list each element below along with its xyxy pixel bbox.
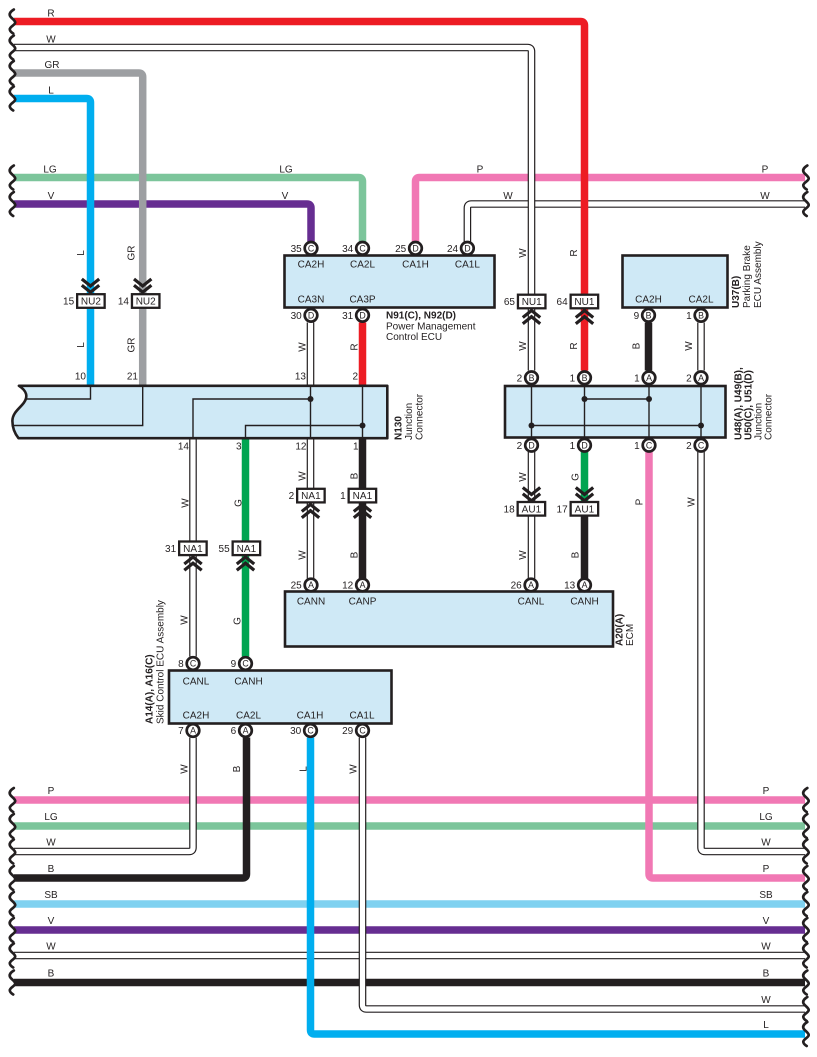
break symbol bottom right y=930 [803, 918, 808, 942]
label P bus bottom right [763, 864, 770, 875]
svg-text:LG: LG [44, 812, 58, 823]
wire R bus top to U48 pin 1(B) [14, 22, 585, 371]
label W wire AU1-ECM [518, 550, 529, 560]
pin 35(C) CA2H [291, 242, 318, 255]
connector AU1 pin 17 [557, 502, 599, 516]
pin 2(D) U48 [517, 439, 538, 452]
break symbol left y=204 [10, 192, 15, 216]
connector NU1 pin 65 [504, 295, 546, 309]
svg-text:W: W [518, 341, 529, 351]
svg-text:B: B [632, 342, 643, 349]
connector arrow to NA1 1 [354, 505, 371, 518]
svg-text:30: 30 [291, 311, 303, 322]
svg-text:25: 25 [395, 244, 407, 255]
break symbol bottom right y=955.5 [803, 944, 808, 968]
svg-text:NU2: NU2 [81, 297, 101, 308]
svg-text:W: W [503, 191, 513, 202]
break symbol bottom right y=800 [803, 788, 808, 812]
svg-text:B: B [582, 373, 588, 383]
pin 2(C) U48 [686, 439, 707, 452]
svg-text:1: 1 [686, 311, 692, 322]
label W bus bottom left [46, 838, 56, 849]
label V bus left [48, 191, 55, 202]
svg-text:2: 2 [352, 372, 358, 383]
wire G from N130 pin 3 to skid control CANH pin 9 [242, 439, 250, 657]
svg-text:CA2H: CA2H [635, 295, 662, 306]
break symbol bottom right y=851.5 [803, 840, 808, 864]
pin 26(A) ECM CANL [511, 579, 538, 592]
label V bus mid [282, 191, 289, 202]
svg-text:ECM: ECM [625, 624, 636, 646]
pin 25(D) CA1H [395, 242, 422, 255]
svg-text:B: B [350, 551, 361, 558]
svg-text:12: 12 [342, 581, 354, 592]
svg-text:P: P [763, 786, 770, 797]
connector AU1 pin 18 [504, 502, 546, 516]
svg-text:B: B [529, 373, 535, 383]
label W wire PM-N130 [298, 342, 309, 352]
break symbol left y=73 [10, 61, 15, 85]
svg-text:2: 2 [289, 491, 295, 502]
svg-text:W: W [684, 341, 695, 351]
svg-text:AU1: AU1 [522, 504, 542, 515]
svg-text:1: 1 [570, 373, 576, 384]
svg-text:CA3P: CA3P [349, 295, 375, 306]
connector NU1 pin 64 [557, 295, 599, 309]
wire W from U37 pin 1 to U48 pin 2(A) [697, 323, 705, 371]
label GR wire upper [127, 246, 138, 261]
label R wire below NU1 [569, 342, 580, 349]
connector NA1 pin 55 [219, 542, 261, 556]
label GR wire lower [127, 338, 138, 353]
svg-text:B: B [646, 311, 652, 321]
svg-text:A: A [190, 726, 196, 736]
label P bus mid [477, 164, 484, 175]
wire W from N130 pin 14 to skid control CANL pin 8 [189, 439, 197, 657]
label W bus bottom right [761, 942, 771, 953]
svg-text:25: 25 [291, 581, 303, 592]
svg-text:W: W [518, 248, 529, 258]
svg-text:CA1L: CA1L [455, 260, 480, 271]
svg-text:30: 30 [290, 726, 302, 737]
svg-text:2: 2 [686, 373, 692, 384]
svg-text:G: G [234, 499, 245, 507]
label L wire upper [76, 250, 87, 256]
pin 30(C) skid CA1H [290, 724, 317, 737]
wire L bus to N130 pin 10 [14, 99, 91, 386]
break symbol bottom left y=930 [10, 918, 15, 942]
svg-text:18: 18 [504, 504, 516, 515]
wire B bus bottom [14, 979, 805, 987]
node N130 pin 10 [75, 372, 87, 383]
connector NU2 pin 15 [63, 294, 105, 308]
svg-text:NU2: NU2 [136, 297, 156, 308]
svg-text:1: 1 [570, 441, 576, 452]
svg-text:CANH: CANH [234, 677, 262, 688]
svg-text:B: B [48, 864, 55, 875]
svg-text:CA2L: CA2L [688, 295, 713, 306]
label N130 Junction Connector [394, 393, 426, 440]
svg-text:A20(A): A20(A) [615, 614, 626, 646]
svg-text:CANP: CANP [349, 597, 377, 608]
label N91(C), N92(D) Power Management Control ECU [386, 311, 476, 344]
pin 1(B) U48 [570, 372, 591, 385]
label B bus bottom right [763, 969, 770, 980]
label W wire NA1-ECM [298, 550, 309, 560]
svg-text:CA1H: CA1H [402, 260, 429, 271]
label W wire U48 down [687, 497, 698, 507]
svg-text:B: B [48, 969, 55, 980]
svg-text:B: B [698, 311, 704, 321]
label L wire below skid [299, 766, 310, 772]
label W wire U48-AU1 [518, 472, 529, 482]
label B wire AU1-ECM [571, 551, 582, 558]
label P bus bottom left [48, 786, 55, 797]
svg-text:C: C [359, 726, 366, 736]
svg-text:9: 9 [231, 659, 237, 670]
svg-text:1: 1 [634, 441, 640, 452]
svg-text:A: A [698, 373, 704, 383]
wire B from AU1 to ECM CANH pin 13 [581, 508, 589, 579]
label LG bus left [43, 164, 57, 175]
break symbol bottom left y=904 [10, 892, 15, 916]
svg-text:Skid Control ECU Assembly: Skid Control ECU Assembly [156, 600, 167, 724]
label P bus right [762, 164, 769, 175]
svg-text:A: A [308, 580, 314, 590]
label P bus bottom right [763, 786, 770, 797]
pin 13(A) ECM CANH [564, 579, 591, 592]
pin 2(A) U48 [686, 372, 707, 385]
pin 31(D) CA3P [342, 309, 369, 322]
break symbol bottom right y=878 [803, 866, 808, 890]
connector arrow to NA1 55 [237, 557, 254, 570]
svg-text:LG: LG [43, 164, 57, 175]
wire G from U48 pin 1(D) to AU1 [581, 452, 589, 508]
pin 8(C) skid CANL [178, 657, 199, 670]
label W bus mid right [503, 191, 513, 202]
wire P from U48 pin 1(C) to right P bus [649, 452, 805, 878]
pin 24(D) CA1L [447, 242, 474, 255]
svg-text:GR: GR [45, 60, 60, 71]
label B wire NA1-ECM [350, 551, 361, 558]
svg-text:W: W [761, 995, 771, 1006]
break symbol bottom left y=982.5 [10, 971, 15, 995]
svg-text:CA3N: CA3N [298, 295, 325, 306]
svg-text:12: 12 [295, 442, 307, 453]
node N130 pin 14 [178, 442, 190, 453]
svg-text:B: B [232, 765, 243, 772]
pin 1(D) U48 [570, 439, 591, 452]
wire P bus bottom [14, 796, 805, 804]
connector arrow to AU1 18 [523, 488, 540, 501]
connector arrow to NU2 14 [134, 279, 151, 292]
break symbol bottom left y=826 [10, 814, 15, 838]
svg-text:V: V [48, 916, 55, 927]
svg-text:2: 2 [517, 441, 523, 452]
svg-text:65: 65 [504, 297, 516, 308]
svg-text:Connector: Connector [763, 393, 774, 440]
label W wire below skid [180, 764, 191, 774]
svg-text:CANN: CANN [297, 597, 325, 608]
svg-text:U37(B): U37(B) [731, 276, 742, 308]
wire W from U48 pin 2(C) to right W bus [701, 452, 805, 852]
pin 6(A) skid CA2L [231, 724, 252, 737]
wire V bus bottom [14, 926, 805, 934]
svg-text:W: W [518, 472, 529, 482]
label L bus bottom right [763, 1020, 769, 1031]
connector NA1 pin 2 [289, 489, 325, 503]
svg-text:A: A [243, 726, 249, 736]
svg-text:R: R [569, 249, 580, 256]
svg-text:35: 35 [291, 244, 303, 255]
pin 9(C) skid CANH [231, 657, 252, 670]
label G wire NA1-skid [233, 617, 244, 625]
svg-text:8: 8 [178, 659, 184, 670]
svg-text:W: W [181, 498, 192, 508]
break symbol bottom left y=955.5 [10, 944, 15, 968]
svg-text:SB: SB [759, 890, 773, 901]
label R bus [47, 8, 54, 19]
svg-text:Parking Brake: Parking Brake [742, 245, 753, 308]
connector NA1 pin 31 [165, 542, 207, 556]
label W wire U37-U48 [684, 341, 695, 351]
label R wire above NU1 [569, 249, 580, 256]
wire W from skid CA2H pin 7 to left W bus [14, 738, 193, 852]
svg-text:W: W [298, 471, 309, 481]
label W bus right [760, 191, 770, 202]
break symbol bottom right y=1009 [803, 997, 808, 1021]
svg-text:7: 7 [178, 726, 184, 737]
label W wire below NU1 [518, 341, 529, 351]
wire B from U37 pin 9 to U48 pin 1(A) [645, 323, 653, 371]
label W bus bottom right [761, 838, 771, 849]
wire W from U48 pin 2(D) to ECM CANL pin 26 [528, 452, 536, 579]
svg-text:Junction: Junction [404, 403, 415, 440]
label B bus bottom left [48, 969, 55, 980]
svg-text:34: 34 [342, 244, 354, 255]
label B wire N130-NA1 [350, 472, 361, 479]
svg-text:CANH: CANH [570, 597, 598, 608]
svg-text:SB: SB [44, 890, 58, 901]
label LG bus bottom left [44, 812, 58, 823]
svg-text:NA1: NA1 [301, 491, 321, 502]
svg-text:9: 9 [634, 311, 640, 322]
connector arrow to NU1 64 [576, 311, 593, 324]
svg-text:14: 14 [118, 297, 130, 308]
svg-text:B: B [571, 551, 582, 558]
svg-text:W: W [46, 838, 56, 849]
svg-text:C: C [698, 440, 705, 450]
ECU A20 ECM [285, 592, 613, 647]
connector arrow to NU2 15 [82, 279, 99, 292]
label W wire NA1-skid [180, 615, 191, 625]
label G wire N130 pin3 upper [234, 499, 245, 507]
ECU A14/A16 Skid Control ECU Assembly [169, 671, 392, 724]
break symbol bottom right y=904 [803, 892, 808, 916]
wire W bus top to U48 pin 2(B) [14, 48, 532, 371]
svg-text:13: 13 [295, 372, 307, 383]
wire B from skid CA2L pin 6 to left B bus [14, 738, 247, 879]
svg-text:21: 21 [127, 372, 139, 383]
label LG bus mid [279, 164, 293, 175]
pin 25(A) ECM CANN [291, 579, 318, 592]
svg-text:R: R [350, 343, 361, 350]
svg-text:AU1: AU1 [575, 504, 595, 515]
svg-text:ECU Assembly: ECU Assembly [753, 241, 764, 308]
label A14(A), A16(C) Skid Control ECU Assembly [145, 600, 167, 724]
svg-text:C: C [190, 659, 197, 669]
svg-text:Connector: Connector [415, 393, 426, 440]
label R wire PM-N130 [350, 343, 361, 350]
ECU N91/N92 Power Management Control ECU [285, 256, 495, 308]
svg-text:CANL: CANL [183, 677, 210, 688]
pin 12(A) ECM CANP [342, 579, 369, 592]
break symbol bottom right y=826 [803, 814, 808, 838]
svg-text:A: A [360, 580, 366, 590]
svg-text:14: 14 [178, 442, 190, 453]
svg-text:C: C [646, 440, 653, 450]
junction connector N130 [12, 386, 387, 438]
svg-text:V: V [48, 191, 55, 202]
svg-text:W: W [518, 550, 529, 560]
svg-text:GR: GR [127, 246, 138, 261]
svg-text:A14(A), A16(C): A14(A), A16(C) [145, 654, 156, 724]
pin 7(A) skid CA2H [178, 724, 199, 737]
node N130 pin 3 [236, 442, 242, 453]
label V bus bottom left [48, 916, 55, 927]
node N130 pin 1 [353, 442, 359, 453]
break symbol bottom right y=982.5 [803, 971, 808, 995]
label W bus top [46, 34, 56, 45]
label SB bus bottom left [44, 890, 58, 901]
label W bus bottom right [761, 995, 771, 1006]
break symbol right y=204 [803, 192, 808, 216]
connector arrow to AU1 17 [576, 488, 593, 501]
break symbol bottom left y=878 [10, 866, 15, 890]
svg-text:L: L [763, 1020, 769, 1031]
pin 29(C) skid CA1L [342, 724, 369, 737]
svg-text:N91(C), N92(D): N91(C), N92(D) [386, 311, 456, 322]
pin 1(A) U48 [634, 372, 655, 385]
svg-text:C: C [242, 659, 249, 669]
svg-text:13: 13 [564, 581, 576, 592]
label W wire above NU1 [518, 248, 529, 258]
connector arrow to NU1 65 [523, 311, 540, 324]
label LG bus bottom right [759, 812, 773, 823]
svg-text:V: V [763, 916, 770, 927]
label GR bus [45, 60, 60, 71]
label L bus [48, 85, 54, 96]
svg-text:W: W [298, 550, 309, 560]
svg-text:D: D [464, 244, 470, 254]
label SB bus bottom right [759, 890, 773, 901]
svg-text:24: 24 [447, 244, 459, 255]
node N130 pin 13 [295, 372, 307, 383]
label W wire below skid CA1L [349, 764, 360, 774]
break symbol left y=98.5 [10, 87, 15, 111]
break symbol left y=177.5 [10, 166, 15, 190]
break symbol bottom left y=800 [10, 788, 15, 812]
svg-text:15: 15 [63, 297, 75, 308]
svg-text:Control ECU: Control ECU [386, 332, 442, 343]
svg-text:V: V [282, 191, 289, 202]
svg-text:W: W [46, 34, 56, 45]
svg-text:NA1: NA1 [183, 544, 203, 555]
svg-text:R: R [47, 8, 54, 19]
label B wire U37-U48 [632, 342, 643, 349]
svg-text:Power Management: Power Management [386, 322, 476, 333]
wire W bus right to CA1L pin 24 [467, 204, 805, 242]
svg-text:LG: LG [279, 164, 293, 175]
svg-text:NU1: NU1 [574, 297, 594, 308]
wire L from skid CA1H pin 30 to bottom L bus [311, 738, 806, 1035]
svg-text:P: P [762, 164, 769, 175]
svg-text:B: B [763, 969, 770, 980]
svg-text:NU1: NU1 [522, 297, 542, 308]
svg-text:3: 3 [236, 442, 242, 453]
svg-text:N130: N130 [394, 416, 405, 440]
svg-text:17: 17 [557, 504, 569, 515]
svg-text:G: G [233, 617, 244, 625]
connector arrow to NA1 31 [184, 557, 201, 570]
wire W from skid CA1L pin 29 to bottom W bus [363, 738, 806, 1010]
label A20(A) ECM [615, 614, 637, 646]
ECU U37 Parking Brake ECU Assembly [623, 256, 728, 308]
svg-text:C: C [359, 244, 366, 254]
svg-text:29: 29 [342, 726, 354, 737]
svg-text:CA1L: CA1L [349, 711, 374, 722]
svg-text:D: D [308, 311, 314, 321]
label U37(B) Parking Brake ECU Assembly [731, 241, 764, 308]
svg-text:P: P [477, 164, 484, 175]
label W wire N130 pin14 upper [181, 498, 192, 508]
svg-text:31: 31 [165, 544, 177, 555]
label B bus bottom left [48, 864, 55, 875]
svg-text:CA2L: CA2L [236, 711, 261, 722]
pin 1(B) U37 CA2L [686, 309, 707, 322]
svg-text:55: 55 [219, 544, 231, 555]
svg-text:W: W [180, 764, 191, 774]
svg-text:W: W [349, 764, 360, 774]
svg-text:C: C [308, 244, 315, 254]
wire W bus bottom [14, 952, 805, 960]
svg-text:P: P [48, 786, 55, 797]
wire LG bus bottom [14, 822, 805, 830]
svg-text:CA2H: CA2H [183, 711, 210, 722]
wire W from N130 pin 12 to ECM CANN pin 25 [307, 439, 315, 579]
label L wire lower [76, 342, 87, 348]
svg-text:B: B [350, 472, 361, 479]
pin 1(C) U48 [634, 439, 655, 452]
break symbol bottom left y=851.5 [10, 840, 15, 864]
svg-text:1: 1 [634, 373, 640, 384]
wire LG bus to CA2L pin 34 [14, 178, 363, 242]
svg-text:L: L [299, 766, 310, 772]
svg-text:1: 1 [340, 491, 346, 502]
node N130 pin 21 [127, 372, 139, 383]
junction connector U48/U49/U50/U51 [505, 386, 726, 438]
svg-text:CA2L: CA2L [350, 260, 375, 271]
connector arrow to NA1 2 [302, 505, 319, 518]
svg-text:D: D [528, 440, 534, 450]
wire P bus right to CA1H pin 25 [416, 178, 806, 242]
svg-text:W: W [760, 191, 770, 202]
label P wire U48 down [635, 498, 646, 505]
connector NU2 pin 14 [118, 294, 160, 308]
svg-text:1: 1 [353, 442, 359, 453]
svg-text:W: W [46, 942, 56, 953]
wire SB bus bottom [14, 900, 805, 908]
